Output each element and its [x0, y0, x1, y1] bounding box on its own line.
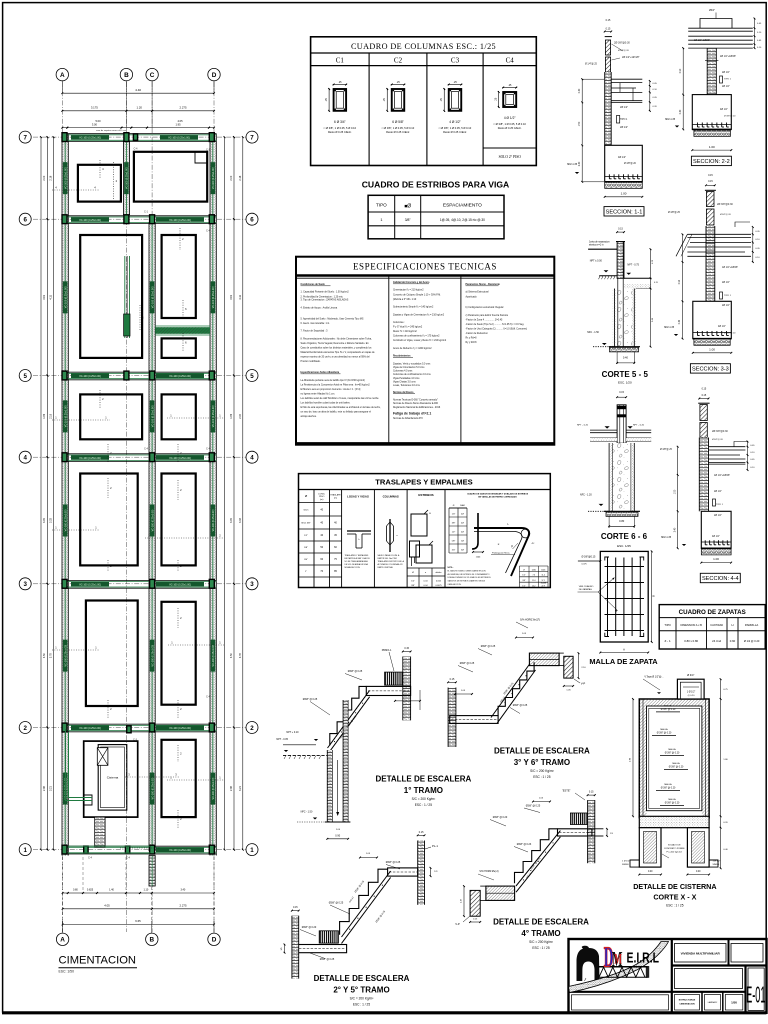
svg-text:C1: C1 — [336, 57, 345, 65]
section 4-4: left dim — [677, 447, 679, 549]
footing slab opening 3 — [80, 235, 142, 358]
svg-text:12db: 12db — [541, 569, 545, 571]
svg-text:5. Agresividad del Suelo : Mod: 5. Agresividad del Suelo : Moderado, Usa… — [301, 317, 364, 320]
svg-text:PL-1: PL-1 — [432, 844, 438, 848]
svg-text:2Ø 1/2" @.15: 2Ø 1/2" @.15 — [716, 542, 730, 544]
svg-text:H: H — [731, 623, 733, 627]
svg-text:ESC. 1/25: ESC. 1/25 — [617, 544, 631, 548]
svg-text:8mm 3/8": 8mm 3/8" — [301, 523, 311, 525]
svg-text:A: A — [60, 72, 65, 79]
section 4-4: slab lines right — [699, 446, 745, 448]
svg-text:4Ø: 4Ø — [461, 523, 464, 525]
svg-text:VER CUADRO: VER CUADRO — [579, 585, 594, 588]
wall label C bay — [150, 640, 155, 672]
malla: dims — [651, 551, 653, 642]
svg-text:VC-100 (0.25x1.00): VC-100 (0.25x1.00) — [212, 645, 215, 667]
svg-text:CONCRETO POBRE: CONCRETO POBRE — [664, 848, 685, 850]
footing slab opening 11 — [162, 602, 196, 705]
svg-text:D: D — [212, 937, 217, 944]
wall label C bay — [150, 505, 155, 537]
svg-text:Calidad del Concreto y del Ace: Calidad del Concreto y del Acero — [393, 281, 430, 284]
svg-text:1.99: 1.99 — [230, 413, 233, 418]
svg-text:Ø3/8" @ 0.25: Ø3/8" @ 0.25 — [513, 704, 528, 707]
svg-text:Z - 1: Z - 1 — [665, 639, 671, 643]
svg-text:Columnas: Columnas 4.0 cms — [393, 371, 413, 373]
plan: horizontal grid axis dashed lines 1-7 — [33, 136, 246, 138]
stair 3y6: sloped soffit — [491, 664, 530, 718]
svg-text:VC-100 (0.25x1.00): VC-100 (0.25x1.00) — [212, 777, 215, 799]
losas y vigas sketch (T shape) — [347, 530, 371, 532]
svg-text:C2: C2 — [394, 57, 403, 65]
svg-text:VC-100 (0.25x1.00): VC-100 (0.25x1.00) — [169, 583, 191, 586]
svg-text:45°: 45° — [531, 543, 534, 545]
svg-text:ESTRIBOS: ESTRIBOS — [418, 493, 433, 497]
svg-text:NPT – 0.20: NPT – 0.20 — [577, 424, 589, 426]
svg-text:MALLA: MALLA — [668, 798, 676, 801]
svg-text:NPT - 0.75: NPT - 0.75 — [627, 264, 639, 267]
svg-text:NFZ-1.35: NFZ-1.35 — [664, 326, 675, 329]
svg-text:A: A — [623, 647, 625, 651]
svg-text:6mm: 6mm — [304, 509, 309, 511]
svg-text:B: B — [149, 937, 154, 944]
corte 5-5: top wall stub — [617, 231, 624, 233]
cistern: legs — [639, 828, 661, 867]
svg-text:7. Factor de Seguridad : 3: 7. Factor de Seguridad : 3 — [301, 330, 329, 333]
svg-text:DIMENSION A x B: DIMENSION A x B — [681, 623, 703, 627]
svg-text:1 Ø 1/2": 1 Ø 1/2" — [622, 861, 630, 863]
corte 5-5: pit walls — [615, 289, 635, 347]
svg-text:MALLA: MALLA — [664, 783, 672, 786]
svg-text:2Ø 3/8"@0.30: 2Ø 3/8"@0.30 — [717, 203, 733, 206]
svg-text:Ø 3/8"@.20: Ø 3/8"@.20 — [624, 163, 637, 165]
svg-text:22.9: 22.9 — [541, 586, 545, 588]
svg-text:1° TRAMO: 1° TRAMO — [404, 786, 443, 795]
svg-text:SECCION: 4-4: SECCION: 4-4 — [702, 576, 739, 582]
svg-text:4: 4 — [23, 455, 27, 462]
svg-text:4.11: 4.11 — [239, 294, 242, 299]
svg-text:Parametros Sismo - Resistente: Parametros Sismo - Resistente — [466, 283, 501, 286]
stair 2y5: landing slab — [388, 868, 418, 876]
column C at axis 4 — [62, 453, 67, 462]
table TRASLAPES Y EMPALMES frame — [299, 474, 551, 588]
svg-text:2.275: 2.275 — [180, 903, 187, 907]
svg-text:4.11: 4.11 — [50, 294, 53, 299]
svg-text:Resto Ø 0.25 C/Extr.: Resto Ø 0.25 C/Extr. — [386, 130, 410, 134]
column section drawing C3 — [449, 89, 462, 111]
svg-text:PARTIR DEL 2do PISO: PARTIR DEL 2do PISO — [378, 557, 398, 560]
svg-text:8. Recomendaciones Adicionales: 8. Recomendaciones Adicionales : No debe… — [301, 337, 373, 340]
cistern outer wall — [84, 741, 138, 817]
svg-text:6 Ø 5/8": 6 Ø 5/8" — [392, 120, 404, 124]
svg-text:Ø 1/4"@.25: Ø 1/4"@.25 — [585, 64, 598, 66]
svg-text:Ø 3/8" @ 0.20: Ø 3/8" @ 0.20 — [665, 802, 680, 804]
dashed interior leader dims in rooms — [52, 189, 99, 191]
svg-text:Junta de separacion: Junta de separacion — [589, 241, 610, 244]
ganchos cell: small table — [448, 503, 450, 564]
svg-text:Los ladrillos humbler colant t: Los ladrillos humbler colant todas de un… — [301, 402, 351, 405]
svg-text:VC-100 (0.25x1.00): VC-100 (0.25x1.00) — [212, 286, 215, 308]
column row1 mid b — [125, 846, 129, 853]
svg-text:3.50: 3.50 — [43, 653, 46, 658]
svg-text:Zapatas, Vertic y zocalados: Zapatas, Vertic y zocalados 5.0 cms — [393, 362, 431, 365]
beam VC-100 row 7 — [62, 133, 216, 135]
svg-text:CIMENTACION: CIMENTACION — [59, 955, 136, 967]
svg-text:a) Sistema Estructural: a) Sistema Estructural — [466, 291, 489, 294]
svg-text:Cisterna: Cisterna — [107, 776, 119, 780]
svg-text:S/C = 200 Kg/m²: S/C = 200 Kg/m² — [350, 997, 374, 1001]
footing slab opening 7 — [162, 394, 196, 439]
svg-text:0.90: 0.90 — [335, 835, 340, 838]
svg-text:1: 1 — [23, 847, 27, 854]
svg-text:4 Ø 1/2": 4 Ø 1/2" — [449, 120, 461, 124]
corte 6-6: top dim — [617, 396, 626, 398]
section 1-1: left dim chain — [581, 79, 583, 182]
svg-text:3/8": 3/8" — [522, 580, 525, 582]
svg-text:1.95: 1.95 — [175, 122, 181, 126]
section 1-1: slab lines right — [605, 78, 643, 80]
svg-text:3.78: 3.78 — [50, 653, 53, 658]
svg-text:C4: C4 — [506, 57, 515, 65]
svg-text:M: M — [614, 951, 622, 967]
svg-text:3.81: 3.81 — [43, 294, 46, 299]
svg-text:3/8": 3/8" — [411, 585, 415, 587]
svg-text:6: 6 — [23, 217, 27, 224]
svg-text:Ø 3/4": Ø 3/4" — [687, 673, 694, 677]
svg-text:4.05: 4.05 — [177, 119, 183, 123]
section 4-4: footing — [701, 511, 731, 548]
stair detail 3y6 tramo: left ladder wall — [448, 688, 456, 747]
svg-text:1 Ø 1/2": 1 Ø 1/2" — [687, 692, 696, 694]
svg-text:EN VARILLAS DE FIERRO CORRUGAD: EN VARILLAS DE FIERRO CORRUGADO — [478, 496, 517, 499]
section 4-4: top — [699, 398, 708, 400]
svg-text:Resto Ø 0.25 C/Extr.: Resto Ø 0.25 C/Extr. — [328, 130, 352, 134]
svg-text:TRASLAPES Y EMPALMES: TRASLAPES Y EMPALMES — [375, 478, 472, 487]
svg-text:LAMINA N°: LAMINA N° — [708, 1001, 718, 1004]
svg-text:24 Und: 24 Und — [712, 639, 721, 643]
wall label A bay — [63, 281, 68, 313]
stair 3y6: steps (mirrored, rising right) — [498, 662, 534, 715]
svg-text:4.05: 4.05 — [104, 903, 110, 907]
svg-text:0.15: 0.15 — [404, 647, 409, 650]
svg-text:A: A — [60, 937, 65, 944]
svg-text:NPT ± 0.00: NPT ± 0.00 — [590, 259, 603, 262]
svg-text:E.I.R.L: E.I.R.L — [627, 950, 660, 966]
svg-text:6.65: 6.65 — [135, 919, 141, 923]
svg-text:MALLA: MALLA — [672, 762, 680, 765]
svg-text:espesor maximo de 20 cm/m, a u: espesor maximo de 20 cm/m, a una densida… — [301, 356, 371, 359]
section 4-4: right dim stack — [747, 442, 749, 471]
stair 1: ground line + hatch left — [283, 754, 330, 756]
svg-text:ESC : 1 / 25: ESC : 1 / 25 — [353, 1003, 370, 1007]
svg-text:SECCION: 2-2: SECCION: 2-2 — [693, 159, 730, 165]
svg-text:1/2": 1/2" — [522, 586, 525, 588]
svg-text:Sobrecimiento Simple: Sobrecimiento Simple f'c = 140 kg/cm2 — [393, 306, 434, 309]
panel ESPECIFICACIONES TECNICAS frame — [296, 257, 554, 445]
column C at axis 6 — [62, 215, 67, 224]
title block outer frame — [569, 939, 767, 1013]
cistern inner tank — [98, 745, 127, 811]
footing slab opening 8 — [80, 474, 138, 566]
wall label D bay — [211, 640, 216, 672]
svg-text:DETALLE DE ESCALERA: DETALLE DE ESCALERA — [314, 974, 410, 983]
svg-text:Recubrimientos: Recubrimientos — [393, 355, 411, 358]
ganchos right mini-table — [520, 565, 549, 567]
svg-text:2. Profundidad la Cimentacion: 2. Profundidad la Cimentacion : 1.20 mts… — [301, 295, 344, 298]
svg-text:VC-100 (0.25x1.00): VC-100 (0.25x1.00) — [64, 405, 67, 427]
footing slab opening 6 — [80, 394, 142, 439]
svg-text:TIPO: TIPO — [376, 203, 387, 208]
svg-text:0.065: 0.065 — [436, 581, 442, 583]
svg-text:Ø3/8" @ 0.25: Ø3/8" @ 0.25 — [329, 902, 344, 905]
svg-text:Continuitt un Vigas, Losas y R: Continuitt un Vigas, Losas y Resto f'c =… — [393, 339, 447, 342]
svg-text:1.99: 1.99 — [43, 413, 46, 418]
svg-text:SIMILE: SIMILE — [713, 864, 720, 866]
svg-text:1/50: 1/50 — [731, 1001, 737, 1005]
svg-text:VC-100 (0.25x1.00): VC-100 (0.25x1.00) — [151, 286, 154, 308]
svg-text:NFZ-1.35: NFZ-1.35 — [665, 118, 676, 121]
svg-text:TIPO 1: TIPO 1 — [716, 504, 724, 506]
svg-text:VC-100 (0.25x1.00): VC-100 (0.25x1.00) — [169, 849, 191, 852]
svg-text:S/% HORIZ Øe(.2): S/% HORIZ Øe(.2) — [479, 871, 498, 873]
column C at axis 5 — [62, 371, 67, 380]
svg-text:Ø 3/8"@.25: Ø 3/8"@.25 — [660, 449, 673, 451]
columnas sketch — [389, 519, 391, 552]
svg-text:Ø3/8" @ 0.25: Ø3/8" @ 0.25 — [526, 805, 541, 808]
svg-text:GANCHOS DE ESTRIBOS DIAMETRO S: GANCHOS DE ESTRIBOS DIAMETRO SEGUN — [448, 580, 486, 583]
svg-text:Ø: Ø — [412, 572, 414, 574]
svg-text:Normas Tecnicas E-060 "Concret: Normas Tecnicas E-060 "Concreto armado" — [393, 399, 438, 402]
svg-text:2.40: 2.40 — [579, 161, 581, 166]
svg-text:2.00: 2.00 — [43, 175, 46, 180]
svg-text:SECCION: 1-1: SECCION: 1-1 — [606, 209, 643, 215]
svg-text:VIVIENDA MULTIFAMILIAR: VIVIENDA MULTIFAMILIAR — [681, 952, 721, 956]
stair 1: sloped soffit — [328, 690, 370, 748]
svg-text:c) Parametro para definir Fuer: c) Parametro para definir Fuerza Sismica — [466, 314, 509, 317]
svg-text:3.175: 3.175 — [91, 106, 98, 110]
svg-text:CADA SECCION.: CADA SECCION. — [448, 583, 462, 586]
svg-text:NFC - 1.20: NFC - 1.20 — [580, 493, 592, 496]
svg-text:VC-100 (0.25x1.00): VC-100 (0.25x1.00) — [151, 777, 154, 799]
svg-text:V-P: V-P — [581, 682, 586, 686]
svg-text:VC-100 (0.25x1.00): VC-100 (0.25x1.00) — [212, 167, 215, 189]
section 2-2: bottom dim + label — [692, 149, 731, 151]
svg-text:2.16: 2.16 — [50, 175, 53, 180]
svg-text:1.20: 1.20 — [137, 106, 143, 110]
wall label A bay — [63, 162, 68, 194]
svg-text:EN PARTES ALTAS Y BAJOS: EN PARTES ALTAS Y BAJOS — [345, 557, 371, 560]
svg-text:PISO: PISO — [319, 496, 325, 498]
svg-text:2Ø 1/2": 2Ø 1/2" — [722, 86, 730, 88]
svg-text:2.40: 2.40 — [674, 527, 676, 532]
svg-text:LOSAS Y VIGAS: LOSAS Y VIGAS — [347, 495, 369, 499]
svg-text:4° TRAMO: 4° TRAMO — [521, 929, 560, 938]
svg-text:SIMILE: SIMILE — [622, 864, 629, 866]
svg-text:0.075: 0.075 — [582, 564, 588, 566]
wall: right perimeter wall on axis D — [210, 134, 216, 856]
svg-text:3.00: 3.00 — [92, 122, 98, 126]
svg-text:ESC. 1/20: ESC. 1/20 — [618, 380, 632, 384]
svg-text:0.15: 0.15 — [619, 391, 624, 394]
svg-text:0.90: 0.90 — [679, 279, 681, 284]
svg-text:CUADRO DE ESTRIBOS PARA VIGA: CUADRO DE ESTRIBOS PARA VIGA — [362, 179, 510, 189]
section 4-4: wall shaft — [699, 438, 708, 512]
wall label C bay — [150, 400, 155, 432]
svg-text:V-P: V-P — [455, 922, 460, 926]
wall label B bay 7-6 — [124, 162, 129, 194]
svg-text:0.15: 0.15 — [606, 19, 611, 22]
svg-text:-Factor de Suelo (Tipo S-2) ..: -Factor de Suelo (Tipo S-2) ........... … — [466, 323, 525, 326]
svg-text:ESPACIAMIENTO: ESPACIAMIENTO — [443, 203, 482, 209]
svg-text:1: 1 — [380, 218, 382, 222]
plan: bottom grid bubbles A B D — [56, 933, 68, 945]
svg-text:0.60: 0.60 — [730, 639, 736, 643]
svg-text:1. Capacidad Portante del Suel: 1. Capacidad Portante del Suelo : 1.00 k… — [301, 291, 350, 294]
column row1 mid a — [84, 846, 88, 853]
svg-text:0.40: 0.40 — [679, 319, 681, 324]
corte 5-5: right dim — [650, 249, 652, 347]
svg-text:VC-100 (0.25x1.00): VC-100 (0.25x1.00) — [79, 727, 101, 730]
svg-text:ESC : 1 / 25: ESC : 1 / 25 — [533, 775, 550, 779]
svg-text:CUADRO DE ZAPATAS: CUADRO DE ZAPATAS — [679, 609, 746, 616]
title block dividers — [671, 939, 673, 1013]
svg-text:2Ø 1/2": 2Ø 1/2" — [620, 106, 628, 109]
svg-text:PARTE CENTRAL: PARTE CENTRAL — [378, 566, 393, 569]
section 3-3: right dim stack — [752, 227, 754, 262]
wall label C bay — [150, 281, 155, 313]
svg-text:antrajo aterhos.: antrajo aterhos. — [301, 415, 318, 418]
svg-text:LONG.: LONG. — [318, 494, 325, 496]
svg-text:0.15: 0.15 — [293, 906, 298, 909]
column C at axis 1 — [209, 845, 214, 854]
wall: left perimeter wall on axis A — [62, 134, 68, 856]
small vertical dashed leaders with numbers — [99, 160, 101, 178]
svg-text:Vigas Chatas: Vigas Chatas 3.0 cms — [393, 380, 416, 383]
svg-text:VC-100 (0.25x1.00): VC-100 (0.25x1.00) — [151, 509, 154, 531]
svg-text:(Mezcla a 6'' Min.: (Mezcla a 6'' Min. 1:10 — [393, 299, 417, 301]
svg-text:2.00: 2.00 — [230, 175, 233, 180]
svg-text:ESC : 1 / 25: ESC : 1 / 25 — [415, 803, 432, 807]
svg-text:1.00: 1.00 — [621, 191, 627, 195]
svg-text:Ø 3/8" @ 0.20: Ø 3/8" @ 0.20 — [661, 787, 676, 789]
wall label A bay — [63, 640, 68, 672]
svg-text:4Ø 1/2": 4Ø 1/2" — [720, 109, 728, 111]
stair 4: sloped soffit — [516, 831, 560, 886]
corte 6-6: column — [617, 405, 626, 443]
column C at axis 1 — [62, 845, 67, 854]
svg-text:CUADRO DE COLUMNAS ESC.: 1/25: CUADRO DE COLUMNAS ESC.: 1/25 — [351, 42, 496, 51]
bottom-left empty cell inner border — [572, 995, 669, 1010]
svg-text:NOTA :: NOTA : — [448, 566, 454, 569]
svg-text:PARRILLA: PARRILLA — [745, 623, 758, 627]
wall label D bay — [211, 281, 216, 313]
stair 2y5: steps — [340, 869, 388, 935]
column C at axis 4 — [150, 453, 155, 462]
svg-text:1.00: 1.00 — [709, 347, 715, 351]
svg-text:VC-100 (0.25x1.00): VC-100 (0.25x1.00) — [151, 405, 154, 427]
stair 2y5: bottom floor slab — [293, 945, 346, 953]
svg-text:⌀=4db: ⌀=4db — [541, 582, 546, 585]
wall: interior wall on axis B (rows 7-6) — [123, 141, 129, 215]
column section drawing C1 — [334, 89, 347, 111]
stair 1: landing slab — [366, 686, 410, 695]
wall label A bay — [63, 400, 68, 432]
svg-text:P y S' Vical f'c = 245 kg/: P y S' Vical f'c = 245 kg/cm2 — [393, 327, 423, 329]
plan title CIMENTACION — [59, 955, 138, 974]
svg-text:Ø 3/8" @ 0.20: Ø 3/8" @ 0.20 — [661, 709, 676, 711]
cistern: bottom leg dims — [639, 874, 661, 876]
section 2-2: left dim — [682, 48, 684, 129]
svg-text:Ry y Rd=8: Ry y Rd=8 — [466, 342, 478, 344]
plan: bottom dimension lines — [63, 892, 68, 894]
svg-text:0.15: 0.15 — [708, 180, 713, 183]
svg-text:-Factor de Reduccion: -Factor de Reduccion — [466, 332, 489, 335]
sheet number cell E-01 — [748, 968, 764, 1010]
svg-text:2.16: 2.16 — [239, 175, 242, 180]
column C at axis 5 — [124, 371, 129, 380]
svg-text:0.15: 0.15 — [618, 228, 623, 231]
beam VC-100 row 2 — [62, 723, 216, 725]
svg-text:Ø3/8" @ 0.25: Ø3/8" @ 0.25 — [320, 958, 335, 961]
cuadro de zapatas table — [659, 605, 765, 649]
section 1-1: wall top hatch — [605, 40, 610, 55]
svg-text:Resto Ø 0.25 C/Extr.: Resto Ø 0.25 C/Extr. — [498, 126, 522, 130]
svg-text:El Mortero sera en proporcion: El Mortero sera en proporcion Cemento : … — [301, 388, 361, 391]
svg-text:E-01: E-01 — [746, 981, 765, 1007]
svg-text:VC-100 (0.25x1.00): VC-100 (0.25x1.00) — [169, 457, 191, 460]
svg-text:D: D — [212, 72, 217, 79]
svg-text:DETALLE DE ESCALERA: DETALLE DE ESCALERA — [494, 747, 590, 756]
svg-text:Ø3/8" @ 0.25: Ø3/8" @ 0.25 — [386, 861, 401, 864]
svg-text:Zapatas y Vigas de Cimentacion: Zapatas y Vigas de Cimentacion f'c = 210… — [393, 313, 445, 316]
svg-text:un raso de, baro un altra de l: un raso de, baro un altra de ladrillo, e… — [301, 411, 372, 414]
svg-text:S/C = 200 Kg/m²: S/C = 200 Kg/m² — [530, 769, 554, 773]
svg-text:2Ø 3/8"@0.30: 2Ø 3/8"@0.30 — [614, 42, 630, 45]
stair 1: foundation pit below — [327, 750, 332, 822]
svg-text:Columnas de confinamiento f: Columnas de confinamiento f'c = 175 kg/c… — [393, 335, 440, 338]
svg-text:MALLA: MALLA — [660, 728, 668, 731]
svg-text:NFC - 1.50: NFC - 1.50 — [587, 331, 599, 334]
svg-text:TIPO: TIPO — [664, 623, 671, 627]
svg-text:COLUMNAS: COLUMNAS — [383, 495, 399, 499]
column C at axis 3 — [150, 579, 155, 588]
svg-text:sismica e=1 in: sismica e=1 in — [589, 245, 604, 247]
logo cell art: truss bridge — [646, 966, 649, 978]
svg-text:5/8": 5/8" — [304, 547, 308, 549]
svg-text:3.21: 3.21 — [239, 786, 242, 791]
table: CUADRO DE COLUMNAS frame — [311, 37, 537, 166]
svg-text:0.0675: 0.0675 — [435, 585, 442, 587]
svg-text:3.81: 3.81 — [230, 294, 233, 299]
logo cell art: mountain with tunnel — [577, 946, 600, 981]
beam VC-100 row 4 — [62, 453, 216, 455]
svg-text:4. Estrato de Apoyo : Arcilla: 4. Estrato de Apoyo : Arcilla Limosa — [301, 306, 338, 309]
section 3-3: bottom dim + label — [693, 352, 732, 354]
svg-text:VC-100 (0.25x1.00): VC-100 (0.25x1.00) — [212, 405, 215, 427]
table estribos frame — [368, 195, 504, 239]
middle empty cell inner border — [675, 969, 743, 989]
svg-text:Ø 3/8"@.25: Ø 3/8"@.25 — [668, 212, 681, 214]
svg-text:F'c=100 kg/cm2: F'c=100 kg/cm2 — [666, 852, 682, 854]
svg-text:ESPECIFICACIONES TECNICAS: ESPECIFICACIONES TECNICAS — [353, 262, 497, 272]
svg-text:2: 2 — [23, 725, 27, 732]
svg-text:(m): (m) — [320, 499, 324, 501]
svg-text:NPT + 0.10: NPT + 0.10 — [286, 731, 299, 734]
svg-text:CORTE 6 - 6: CORTE 6 - 6 — [601, 532, 648, 541]
svg-text:1/4": 1/4" — [522, 575, 525, 577]
svg-text:VC-100 (0.25x1.00): VC-100 (0.25x1.00) — [151, 645, 154, 667]
wall: interior wall on axis C (rows 6-1) — [149, 222, 155, 851]
footing slab opening 2 — [134, 152, 207, 202]
